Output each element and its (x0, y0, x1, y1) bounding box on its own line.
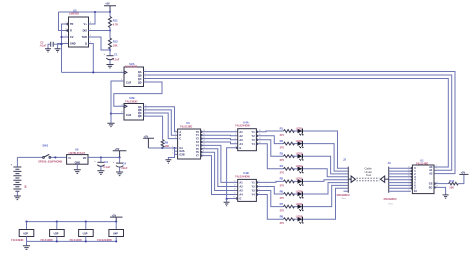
wire U1 EO to ground (435, 187, 445, 194)
svg-text:LED7: LED7 (296, 202, 303, 206)
svg-text:QD: QD (138, 115, 142, 118)
wire Y2 to U4A A3 (202, 139, 238, 140)
svg-text:THR: THR (82, 36, 87, 39)
ground under U3 enables (165, 160, 171, 163)
svg-text:R5: R5 (280, 177, 284, 181)
svg-text:R: R (70, 30, 72, 33)
svg-text:5: 5 (172, 153, 173, 155)
LED LED5 (296, 177, 304, 186)
svg-text:TR: TR (70, 23, 74, 26)
LED LED2 (296, 139, 304, 148)
svg-text:R7: R7 (280, 202, 284, 206)
ground under U1 EO (443, 195, 449, 198)
node R9 to G1 wire (162, 147, 164, 149)
wire rail QB long to U1 (144, 75, 452, 170)
wire U2B QC to decoder C (144, 113, 178, 139)
wire clock feed y72.4 to U2A pin1 (62, 71, 125, 73)
svg-text:G: G (239, 198, 241, 201)
svg-text:10: 10 (408, 166, 410, 168)
wire U2A QD to U2B clock (114, 82, 162, 106)
node C4 junction (119, 156, 121, 158)
svg-text:15: 15 (234, 189, 236, 191)
power +5V symbol (regulator output) (113, 151, 127, 158)
svg-text:J3: J3 (388, 161, 391, 165)
svg-text:.01uF: .01uF (39, 44, 46, 48)
capacitor C3 (100, 157, 102, 162)
pin R (67, 30, 69, 32)
svg-text:LED2: LED2 (296, 139, 303, 143)
LED LED3 (296, 152, 304, 161)
wire C2 left plate down to ground (48, 44, 51, 48)
wire U4B out1 to R5 (258, 181, 284, 182)
svg-text:2: 2 (235, 130, 236, 132)
wire LED2 to J2 pin 2 (303, 144, 348, 172)
wire J3 pin 7 to U1 (389, 184, 411, 186)
svg-text:1: 1 (66, 42, 67, 44)
svg-text:J2: J2 (343, 158, 346, 162)
svg-text:+5V: +5V (105, 3, 110, 6)
LED LED1 (296, 126, 304, 135)
svg-text:GS: GS (429, 183, 433, 186)
wire THR pin to R12/C1 node (89, 37, 111, 50)
svg-text:74LS244DW: 74LS244DW (235, 124, 250, 128)
wire J3 pin 5 to U1 (389, 179, 411, 181)
svg-text:4: 4 (235, 134, 236, 136)
LED LED6 (296, 189, 304, 198)
wire LED1 to J2 pin 1 (303, 131, 348, 168)
svg-text:R1: R1 (280, 126, 284, 130)
svg-text:G: G (239, 147, 241, 150)
svg-text:QD: QD (138, 82, 142, 85)
wire Q output down to counter clock (89, 44, 94, 73)
svg-text:0.1uF: 0.1uF (103, 165, 110, 169)
wire U2A CLR to shared reset/ground line (111, 81, 124, 123)
svg-text:C3: C3 (104, 160, 108, 164)
pin bubbles U4B (236, 182, 258, 200)
svg-text:LM555D: LM555D (69, 12, 79, 16)
svg-text:6: 6 (172, 146, 173, 148)
svg-text:270: 270 (280, 146, 285, 150)
pin bubbles U1 right (434, 183, 435, 188)
wire power blocks bottom rail (27, 240, 117, 242)
svg-text:270: 270 (280, 133, 285, 137)
wire resistor to LED (292, 218, 297, 220)
svg-text:8: 8 (235, 142, 236, 144)
resistor R3 (284, 155, 295, 158)
resistor R12 (109, 31, 111, 39)
svg-text:4.7K: 4.7K (113, 23, 119, 27)
node C3 junction (100, 156, 102, 158)
svg-text:4: 4 (408, 187, 409, 189)
wire switch to regulator (51, 156, 67, 158)
wire J3 pin 4 to U1 (389, 176, 411, 178)
wire U6 GND to ground (76, 164, 78, 169)
buffer U4B 74LS244 (238, 179, 257, 201)
encoder U1 74LS148 (411, 168, 412, 190)
wire V+ pin to +5V rail (89, 12, 96, 24)
svg-text:VO: VO (83, 157, 87, 160)
svg-text:LED1: LED1 (296, 126, 303, 130)
svg-text:270: 270 (280, 221, 285, 225)
resistor R2 (284, 142, 295, 145)
svg-text:74LS393D: 74LS393D (125, 100, 138, 104)
wire Y3 to U4A A4 (202, 142, 238, 144)
wire J3 pin 6 to U1 (389, 182, 411, 184)
node switch output (54, 156, 56, 158)
svg-text:CLR: CLR (126, 82, 131, 85)
power +5V symbol (power blocks) (110, 217, 123, 222)
wire G1 enable (148, 147, 177, 149)
svg-text:R11: R11 (113, 19, 118, 23)
wire resistor to LED (292, 168, 297, 170)
wire resistor to LED (292, 180, 297, 182)
wire U2B CLR stub (111, 113, 124, 115)
svg-text:GND: GND (70, 43, 76, 46)
svg-text:R4: R4 (280, 164, 284, 168)
resistor R10 (449, 182, 459, 185)
decoder U3 74LS138 (178, 129, 201, 159)
ground under U5 GND pin (55, 49, 61, 52)
svg-text:U2P: U2P (23, 232, 28, 235)
svg-text:LED3: LED3 (296, 152, 303, 156)
wire power blocks top rail (27, 221, 117, 223)
wire U2B QB to decoder B (144, 110, 178, 135)
ground under C4 (116, 172, 123, 176)
wire resistor to LED (292, 193, 297, 195)
svg-text:11: 11 (234, 181, 236, 183)
svg-text:R9: R9 (165, 140, 169, 144)
svg-text:2: 2 (66, 22, 67, 24)
svg-text:2: 2 (175, 133, 176, 135)
wire J3 pin 3 to U1 (389, 173, 411, 175)
svg-text:U1P: U1P (83, 232, 88, 235)
wire J3 pin 2 to U1 (389, 170, 411, 172)
svg-text:1: 1 (175, 130, 176, 132)
node Q/clock junction (92, 71, 94, 73)
node V+ rail junction (94, 11, 96, 13)
wire G2A/G2B tie to ground (168, 148, 174, 159)
svg-text:R3: R3 (280, 152, 284, 156)
wire LED4 to J2 pin 4 (303, 169, 348, 177)
svg-text:4: 4 (172, 149, 173, 151)
svg-text:+5V: +5V (461, 172, 466, 175)
svg-text:CV: CV (70, 36, 74, 39)
wire resistor to LED (292, 130, 297, 132)
svg-text:DSUB9M-F: DSUB9M-F (337, 193, 351, 197)
svg-text:6: 6 (436, 170, 437, 172)
resistor R8 (284, 218, 295, 221)
resistor R1 (284, 130, 295, 133)
wire LED8 to J2 pin 8 (303, 188, 348, 219)
svg-text:Q: Q (85, 43, 87, 46)
wire U2B QD down to R9 (144, 116, 163, 139)
svg-text:74LS148D: 74LS148D (416, 162, 429, 166)
svg-text:270: 270 (280, 209, 285, 213)
wire battery to switch (17, 156, 42, 158)
LED LED8 (296, 215, 304, 224)
svg-text:G2B: G2B (179, 153, 184, 156)
node G2 tie junction (173, 147, 175, 149)
svg-text:LM78L05ACZ: LM78L05ACZ (69, 151, 86, 155)
power +5V symbol (right of U1) (459, 173, 468, 175)
connector J2 DSUB9 (347, 167, 349, 193)
wire U2B QA to decoder A (144, 107, 178, 132)
capacitor C1 polarized (109, 50, 111, 55)
resistor R11 (109, 12, 111, 17)
svg-text:5: 5 (66, 35, 67, 37)
wire U4B G enable (227, 198, 237, 201)
wire U1 GS to R10 (435, 183, 448, 185)
wire Y1 to U4A A2 (202, 134, 238, 137)
power part U4P (109, 230, 124, 237)
svg-text:5: 5 (408, 189, 409, 191)
svg-text:U3: U3 (186, 121, 190, 125)
wire LED5 to J2 pin 5 (303, 180, 348, 182)
svg-text:12: 12 (408, 172, 410, 174)
svg-text:R12: R12 (113, 40, 118, 44)
capacitor C4 (119, 157, 121, 162)
wire top rail y12 from reset pin to +5V (59, 11, 111, 13)
svg-text:U4P: U4P (113, 232, 118, 235)
svg-text:3: 3 (408, 184, 409, 186)
svg-text:270: 270 (280, 171, 285, 175)
svg-text:74LS393D: 74LS393D (125, 65, 138, 69)
ground under U4 enables (224, 202, 230, 205)
svg-text:C4: C4 (123, 161, 127, 165)
svg-text:13: 13 (234, 185, 236, 187)
svg-text:1: 1 (408, 178, 409, 180)
wire Y6 to U4B A3 (202, 152, 238, 190)
svg-text:9V: 9V (24, 185, 28, 188)
wire LED7 to J2 pin 7 (303, 185, 348, 206)
resistor R5 (284, 180, 295, 183)
svg-text:11: 11 (408, 169, 410, 171)
svg-text:270: 270 (280, 196, 285, 200)
op-amp U5 LM555 timer box (69, 17, 89, 47)
wire Y5 to U4B A2 (202, 149, 238, 187)
wire resistor to LED (292, 155, 297, 157)
svg-text:LED6: LED6 (296, 189, 303, 193)
pin bubbles U3 outputs (201, 131, 202, 156)
node U2B CLR junction (110, 113, 112, 115)
ground under C3 (97, 171, 104, 175)
wire U4A out4 to R4 (258, 144, 284, 169)
buffer U4A 74LS244 (238, 129, 257, 151)
capacitor C2 (51, 42, 54, 47)
svg-text:R10: R10 (449, 179, 454, 183)
svg-text:EO: EO (429, 186, 433, 189)
ground under U6 (74, 170, 81, 174)
wire LED3 to J2 pin 3 (303, 156, 348, 174)
wire LED6 to J2 pin 6 (303, 183, 348, 194)
wire to ground (226, 199, 228, 202)
resistor R9 vertical (161, 140, 164, 149)
svg-text:10K: 10K (449, 185, 454, 189)
svg-text:22uF: 22uF (121, 166, 127, 170)
wire block stems top (26, 222, 28, 230)
wire U6 output to +5V node (88, 156, 120, 158)
counter U2B 74LS393 (124, 104, 144, 121)
svg-text:R2: R2 (280, 139, 284, 143)
power +5V symbol (top, above R11) (104, 6, 116, 12)
cable dashed wires (356, 178, 379, 181)
svg-text:CLR: CLR (126, 114, 131, 117)
svg-text:1: 1 (121, 70, 122, 72)
power part U3P (50, 230, 65, 237)
node bottom rail taps (56, 240, 58, 242)
power part U2P (19, 230, 34, 237)
switch SW1 (43, 154, 51, 158)
pin bubbles U4A (236, 131, 258, 148)
battery BT1 (16, 157, 18, 166)
wire DIS pin to R11/R12 node (89, 30, 111, 32)
svg-text:74LS393D: 74LS393D (11, 238, 24, 242)
counter U2A 74LS393 (124, 67, 144, 87)
svg-text:3: 3 (175, 137, 176, 139)
svg-text:270: 270 (280, 183, 285, 187)
svg-text:Test: Test (366, 173, 371, 177)
wire Y4 to U4B A1 (202, 145, 238, 182)
svg-text:R6: R6 (280, 189, 284, 193)
svg-text:6: 6 (235, 138, 236, 140)
svg-text:74LS244DW: 74LS244DW (235, 174, 250, 178)
power part U1P (79, 230, 94, 237)
connector J3 DSUB9 (380, 176, 384, 182)
wire J2 pin 9 stub (344, 190, 348, 192)
resistor R4 (284, 167, 295, 170)
pin TR (67, 23, 69, 25)
wire vertical x58.5 reset pin to top rail (59, 12, 69, 31)
node rail taps (25, 221, 27, 223)
svg-text:SW1: SW1 (42, 144, 48, 148)
wire Y7 to U4B A4 (202, 156, 238, 195)
wire U4B out3 to R7 (258, 191, 284, 207)
svg-text:+5V: +5V (112, 214, 117, 217)
svg-text:EI: EI (414, 190, 417, 193)
resistor R7 (284, 205, 295, 208)
wire rail QA long to U1 (144, 72, 456, 174)
wire U4A out3 to R3 (258, 140, 284, 156)
regulator U6 LM78L05 (67, 155, 88, 165)
svg-text:270: 270 (280, 158, 285, 162)
ground under CLR line (107, 123, 114, 126)
power +5V symbol (left of U3) (143, 138, 154, 148)
wire Y0 to U4A A1 (202, 131, 238, 133)
wire J3 pin 1 to U1 (389, 167, 411, 169)
svg-text:74LS138D: 74LS138D (180, 124, 193, 128)
wire U4A G enable down to shared ground (227, 148, 237, 199)
wire CV pin stub (62, 36, 69, 38)
svg-text:10K: 10K (113, 44, 118, 48)
LED LED7 (296, 202, 304, 211)
svg-text:LED8: LED8 (296, 215, 303, 219)
svg-text:LED4: LED4 (296, 164, 303, 168)
svg-text:C: C (179, 138, 181, 141)
svg-text:GND: GND (75, 162, 81, 165)
LED LED4 (296, 164, 304, 173)
svg-text:LED5: LED5 (296, 177, 303, 181)
ground under battery (14, 196, 21, 200)
svg-text:VI: VI (68, 157, 71, 160)
ground power blocks (23, 246, 30, 250)
wire resistor to LED (292, 143, 297, 145)
svg-text:C1: C1 (114, 52, 118, 56)
svg-text:2: 2 (408, 181, 409, 183)
svg-text:U3P: U3P (54, 232, 59, 235)
wire resistor to LED (292, 206, 297, 208)
wire vertical x61.5 TR/CV/C2 node down to clock feed (62, 24, 67, 72)
wire U4B out4 to R8 (258, 195, 284, 220)
svg-text:13: 13 (121, 104, 123, 106)
node CV junction (60, 36, 62, 38)
svg-text:17: 17 (234, 193, 236, 195)
svg-text:4: 4 (66, 29, 67, 31)
svg-text:+5V: +5V (144, 135, 149, 138)
svg-text:DSUB9M-F: DSUB9M-F (384, 197, 398, 201)
svg-text:R8: R8 (280, 215, 284, 219)
svg-text:DIS: DIS (83, 30, 88, 33)
wire block stems bottom (26, 237, 28, 242)
svg-text:V+: V+ (84, 23, 88, 26)
node shared enable ground junction (226, 198, 228, 200)
svg-text:SPS09_B1W*NONB: SPS09_B1W*NONB (38, 160, 62, 164)
ground under C1 (106, 65, 113, 68)
wire R10 to +5V (458, 174, 464, 183)
svg-text:U2B: U2B (129, 96, 134, 100)
wire rail QC long to U1 (144, 79, 449, 168)
svg-text:4.7uF: 4.7uF (113, 58, 120, 62)
wire J3 pin 8 to U1 (389, 187, 411, 189)
svg-text:13: 13 (408, 175, 410, 177)
wire GND pin of U5 to ground stem (58, 44, 69, 49)
wire U4B out2 to R6 (258, 187, 284, 195)
wire to system ground (26, 241, 28, 245)
ground under C2 (45, 49, 51, 52)
wire U4A out1 to R1 (258, 130, 284, 133)
wire U4A out2 to R2 (258, 136, 284, 144)
resistor R6 (284, 193, 295, 196)
svg-text:+5V: +5V (115, 148, 120, 151)
wire J3 pin 9 to U1 (389, 190, 411, 192)
